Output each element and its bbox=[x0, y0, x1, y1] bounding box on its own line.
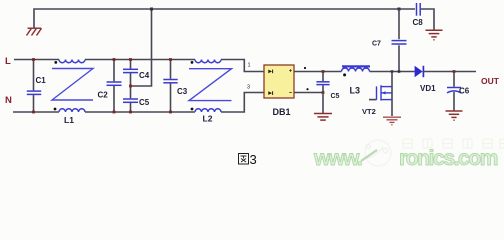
transistor VT2 (MOSFET) bbox=[369, 72, 392, 117]
node: C1 top junction bbox=[32, 58, 35, 61]
node: junction rail / C7 bbox=[398, 70, 401, 73]
node: junction DC- / C5 column bbox=[322, 91, 325, 94]
label C5 (DC filter) bbox=[331, 93, 340, 100]
wire: VD1 cathode to OUT bbox=[423, 71, 476, 73]
label C8 bbox=[413, 18, 424, 27]
node: C4 top junction bbox=[129, 58, 132, 61]
label C1 bbox=[36, 76, 47, 85]
wire: L3 to VD1 anode bbox=[370, 71, 415, 73]
label C7 bbox=[372, 41, 381, 48]
wire: DB1 - output to C5 column bbox=[294, 92, 323, 94]
capacitor C8 bbox=[417, 3, 421, 16]
label L (line input) bbox=[5, 56, 11, 67]
svg-text:1: 1 bbox=[248, 63, 251, 69]
wire: riser from earth rail to C4/C5 midpoint bbox=[131, 9, 152, 86]
label C6 bbox=[459, 87, 470, 96]
watermark logo circle bbox=[365, 140, 391, 166]
capacitor C7 bbox=[392, 9, 407, 72]
node: C4/C5 midpoint junction bbox=[129, 85, 132, 88]
svg-text:L2: L2 bbox=[203, 114, 213, 124]
svg-text:L: L bbox=[5, 56, 11, 67]
capacitor C6 (electrolytic) bbox=[447, 72, 461, 111]
label C4 bbox=[139, 71, 150, 80]
label L1 bbox=[64, 115, 74, 125]
watermark text www. bbox=[313, 147, 362, 170]
pin 1 (DB1 AC input top) bbox=[248, 63, 251, 69]
capacitor C1 bbox=[27, 60, 41, 113]
svg-text:C2: C2 bbox=[98, 91, 109, 100]
inductor L2 bottom winding bbox=[195, 109, 221, 112]
ground earth (under C6) bbox=[446, 111, 463, 120]
wire: top earth rail with left drop bbox=[34, 9, 415, 28]
node: pin dot above DC- wire bbox=[306, 88, 308, 90]
label C3 bbox=[177, 87, 188, 96]
wire: DB1 + output to L3 bbox=[294, 71, 342, 73]
diode VD1 bbox=[415, 66, 424, 77]
ground earth (under C5) bbox=[314, 114, 332, 121]
svg-text:www.: www. bbox=[313, 147, 362, 170]
svg-text:C8: C8 bbox=[413, 18, 424, 27]
svg-text:3: 3 bbox=[250, 152, 257, 167]
inductor L1 top winding bbox=[59, 60, 85, 63]
svg-text:C5: C5 bbox=[139, 98, 150, 107]
label L2 bbox=[203, 114, 213, 124]
svg-text:VT2: VT2 bbox=[362, 107, 376, 116]
node: C3 bottom junction bbox=[169, 111, 172, 114]
svg-text:L3: L3 bbox=[350, 86, 361, 96]
capacitor C3 bbox=[163, 60, 177, 113]
svg-text:C3: C3 bbox=[177, 87, 188, 96]
svg-text:C7: C7 bbox=[372, 41, 381, 48]
node: L3 polarity dot bbox=[343, 73, 346, 76]
node: C1 bottom junction bbox=[32, 111, 35, 114]
capacitor C5 (Y-cap lower) bbox=[123, 86, 138, 112]
svg-text:DB1: DB1 bbox=[273, 107, 291, 117]
core L1 Z symbol bbox=[52, 69, 93, 101]
svg-text:ronics.com: ronics.com bbox=[399, 147, 498, 170]
node: C2 bottom junction bbox=[113, 111, 116, 114]
svg-text:N: N bbox=[5, 95, 12, 106]
node: junction rail / VT2 bbox=[391, 70, 394, 73]
label VD1 bbox=[420, 84, 436, 93]
wire: L rail bbox=[14, 60, 264, 72]
svg-text:C6: C6 bbox=[459, 87, 470, 96]
svg-text:L1: L1 bbox=[64, 115, 74, 125]
inductor L3 bbox=[342, 66, 371, 71]
label L3 bbox=[350, 86, 361, 96]
inductor L2 top winding bbox=[195, 60, 221, 63]
pin 3 (DB1 AC input bottom) bbox=[247, 85, 250, 91]
node: junction earth rail / riser bbox=[150, 8, 153, 11]
core L2 Z symbol bbox=[189, 69, 232, 101]
node: junction earth rail / C7 column bbox=[398, 8, 401, 11]
svg-text:C5: C5 bbox=[331, 93, 340, 100]
node: L2 top polarity dot bbox=[191, 61, 194, 64]
ground earth (under VT2) bbox=[383, 117, 401, 125]
label C2 bbox=[98, 91, 109, 100]
node: C2 top junction bbox=[113, 58, 116, 61]
wire: N rail bbox=[13, 93, 264, 113]
capacitor C5 (DC filter) bbox=[316, 72, 329, 114]
node: C3 top junction bbox=[169, 58, 172, 61]
wire: C8 to right ground bbox=[421, 9, 434, 30]
svg-text:VD1: VD1 bbox=[420, 84, 436, 93]
svg-text:3: 3 bbox=[247, 85, 250, 91]
watermark faint chinese row bbox=[403, 139, 504, 148]
label N (neutral input) bbox=[5, 95, 12, 106]
label VT2 bbox=[362, 107, 376, 116]
label figure caption 图 3 bbox=[239, 154, 249, 165]
label C5 (Y-cap lower) bbox=[139, 98, 150, 107]
node: C5 bottom junction bbox=[129, 111, 132, 114]
node: L1 bottom polarity dot bbox=[54, 108, 57, 111]
capacitor C4 (Y-cap upper) bbox=[123, 60, 138, 87]
node: pin dot above DC+ wire bbox=[304, 67, 306, 69]
ground earth (under C8) bbox=[426, 30, 443, 40]
inductor L1 bottom winding bbox=[59, 109, 85, 112]
bridge rectifier DB1 bbox=[264, 65, 294, 98]
ground chassis (top-left) bbox=[27, 28, 42, 35]
svg-text:OUT: OUT bbox=[481, 76, 500, 86]
svg-text:C1: C1 bbox=[36, 76, 47, 85]
watermark text ronics.com bbox=[399, 147, 498, 170]
node: junction rail / C6 bbox=[453, 70, 456, 73]
node: L1 top polarity dot bbox=[54, 61, 57, 64]
node: L2 bottom polarity dot bbox=[191, 108, 194, 111]
label OUT bbox=[481, 76, 500, 86]
label DB1 bbox=[273, 107, 291, 117]
watermark diagonal slash bbox=[361, 150, 377, 161]
capacitor C2 bbox=[107, 60, 122, 113]
node: junction DC+ / C5 bbox=[322, 70, 325, 73]
svg-text:C4: C4 bbox=[139, 71, 150, 80]
